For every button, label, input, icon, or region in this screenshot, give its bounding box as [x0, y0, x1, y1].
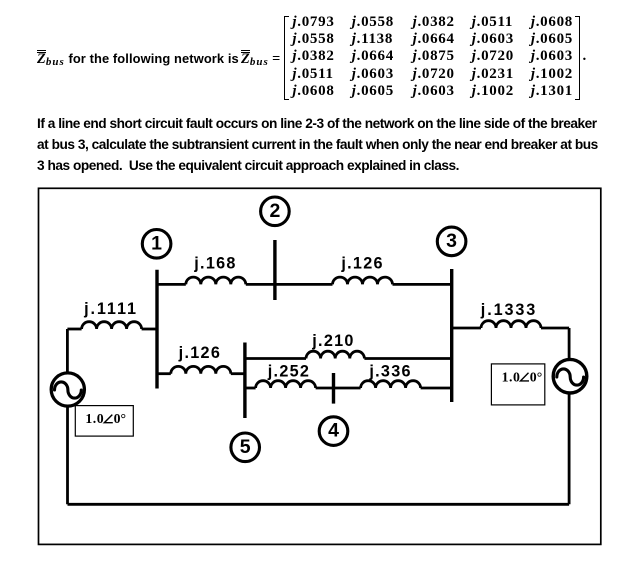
wire j.1333 to right gen riser — [541, 327, 569, 330]
wire j.126 lower to bus5 — [231, 372, 245, 375]
problem paragraph — [37, 114, 640, 176]
bus 5 bar — [243, 343, 246, 419]
svg-text:j.336: j.336 — [368, 362, 412, 380]
inductor j.1111 (gen at bus 1) — [82, 322, 142, 329]
bus 3 bar — [450, 269, 453, 402]
wire j.168 to j.126 across bus2 — [246, 283, 333, 286]
right generator circle G2 — [553, 359, 587, 393]
left 1.0 angle 0 box — [75, 406, 133, 437]
svg-text:j.1111: j.1111 — [83, 300, 138, 318]
wire j.210 to bus3 — [364, 357, 451, 360]
svg-text:0°: 0° — [530, 369, 542, 384]
bottom return wire — [68, 503, 570, 506]
period after matrix — [583, 48, 587, 65]
bus 5 circle — [231, 433, 260, 462]
bus 4 circle — [319, 417, 348, 446]
wire j.126 to bus3 — [393, 283, 452, 286]
inductor j.210 (line 5-3) — [306, 351, 364, 358]
wire left generator to bottom bus — [66, 407, 69, 505]
svg-text:5: 5 — [240, 436, 251, 458]
wire bus5 to j.252 — [245, 387, 256, 390]
wire left gen riser to j.1111 — [67, 328, 81, 331]
svg-text:3: 3 — [446, 230, 457, 252]
bus 2 bar — [273, 240, 276, 300]
wire bus1 to j.126 lower — [157, 372, 171, 375]
inductor j.336 (line 4-3) — [361, 381, 421, 388]
inductor j.126 (line 1-5) — [171, 366, 231, 373]
inductor j.168 (line 1-2) — [186, 277, 246, 284]
bus 1 circle — [142, 230, 171, 259]
bus 4 bar — [332, 373, 335, 404]
svg-text:2: 2 — [269, 200, 280, 222]
left generator circle G1 — [51, 373, 84, 406]
angle symbol right — [521, 373, 530, 381]
right generator sine — [557, 369, 584, 385]
inductor j.126 (line 2-3) — [333, 277, 393, 284]
wire bus3 to j.1333 — [452, 327, 481, 330]
wire right generator up to j.1333 — [568, 328, 571, 359]
matrix right bracket — [575, 16, 580, 100]
wire j.252 to j.336 across bus4 — [316, 387, 361, 390]
inductor j.252 (line 5-4) — [256, 381, 316, 388]
bus 3 circle — [437, 227, 466, 256]
svg-text:0°: 0° — [114, 411, 126, 426]
svg-text:j.126: j.126 — [178, 344, 222, 362]
svg-text:4: 4 — [328, 420, 339, 442]
wire bottom bus up to right generator — [568, 394, 571, 504]
bus 2 circle — [261, 197, 290, 226]
matrix left bracket — [284, 16, 289, 100]
svg-text:j.126: j.126 — [340, 255, 384, 273]
matrix entries — [292, 14, 573, 101]
angle symbol left — [104, 415, 113, 423]
equation line: Zbus for the following network is Zbus = — [37, 52, 280, 67]
svg-text:1: 1 — [151, 232, 162, 254]
svg-text:j.210: j.210 — [311, 332, 355, 350]
svg-text:j.252: j.252 — [267, 362, 311, 380]
wire j.336 to bus3 — [421, 387, 452, 390]
svg-text:j.1333: j.1333 — [480, 301, 537, 319]
frame border — [39, 188, 601, 544]
wire left riser down to left generator — [66, 329, 69, 374]
inductor j.1333 (gen at bus 3) — [481, 321, 541, 328]
left generator sine — [55, 382, 82, 398]
bus 1 bar — [155, 270, 158, 389]
right 1.0 angle 0 box — [491, 364, 544, 405]
svg-text:1.0: 1.0 — [85, 411, 104, 426]
wire j.1111 to bus1 — [142, 328, 157, 331]
svg-text:j.168: j.168 — [193, 255, 237, 273]
wire bus1 to inductor j.168 — [157, 283, 186, 286]
svg-text:1.0: 1.0 — [502, 369, 521, 384]
wire bus5 to j.210 — [245, 357, 306, 360]
